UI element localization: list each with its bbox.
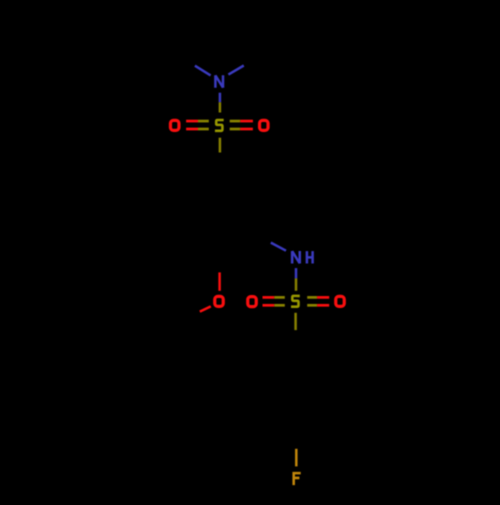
double bond S2=O2L lower, olive part <box>274 304 285 307</box>
atom label F (fluoro) <box>294 473 301 485</box>
double bond S1=O1L upper, olive part <box>198 120 209 123</box>
bond S2-C(ring2 top) olive half <box>294 313 297 330</box>
double bond S2=O2R lower, red part <box>317 304 329 307</box>
bond C(ring1)-N2 blue half <box>271 243 286 251</box>
atom label S2 (sulfonyl S 2) <box>292 296 298 307</box>
double bond S1=O1R lower, olive part <box>230 128 241 131</box>
double bond S1=O1L upper, red part <box>186 120 198 123</box>
double bond S2=O2L upper, olive part <box>274 296 285 299</box>
atom label O1R (sulfonyl O right) <box>260 120 269 130</box>
bond N2-S2 blue half <box>295 268 298 278</box>
atom label S1 (sulfonyl S) <box>216 120 222 131</box>
double bond S2=O2R lower, olive part <box>307 304 317 307</box>
bond N1-CH3 left (blue half) <box>195 66 211 76</box>
double bond S1=O1R upper, red part <box>240 120 253 123</box>
bond N1-S1 blue half <box>219 93 222 103</box>
double bond S1=O1L lower, red part <box>186 128 198 131</box>
double bond S1=O1R lower, red part <box>240 128 253 131</box>
double bond S2=O2R upper, olive part <box>307 296 317 299</box>
atom label O2L (sulfonyl O left 2) <box>248 297 257 307</box>
bond C(ring2 bottom)-F gold half <box>295 449 298 467</box>
atom label N2 (sulfonamide N) <box>292 251 300 264</box>
bond C(ring1 bottom)-O3 red half <box>218 272 221 290</box>
atom label O1L (sulfonyl O left) <box>170 120 179 130</box>
double bond S1=O1L lower, olive part <box>198 128 209 131</box>
atom label H (of NH) <box>307 251 313 263</box>
double bond S2=O2L lower, red part <box>263 304 275 307</box>
bond N1-S1 olive half <box>219 102 222 112</box>
double bond S2=O2L upper, red part <box>263 296 275 299</box>
atom label N1 (dimethylamino N) <box>215 75 223 88</box>
bond O3-CH3 red half <box>200 306 211 311</box>
bond N2-S2 olive half <box>295 278 298 290</box>
atom label O3 (methoxy O) <box>215 296 224 306</box>
double bond S1=O1R upper, olive part <box>230 120 241 123</box>
atom label O2R (sulfonyl O right 2) <box>336 296 345 306</box>
double bond S2=O2R upper, red part <box>317 296 329 299</box>
bond S1-C(ring1 top) olive half <box>219 138 222 153</box>
bond N1-CH3 right (blue half) <box>228 66 243 75</box>
